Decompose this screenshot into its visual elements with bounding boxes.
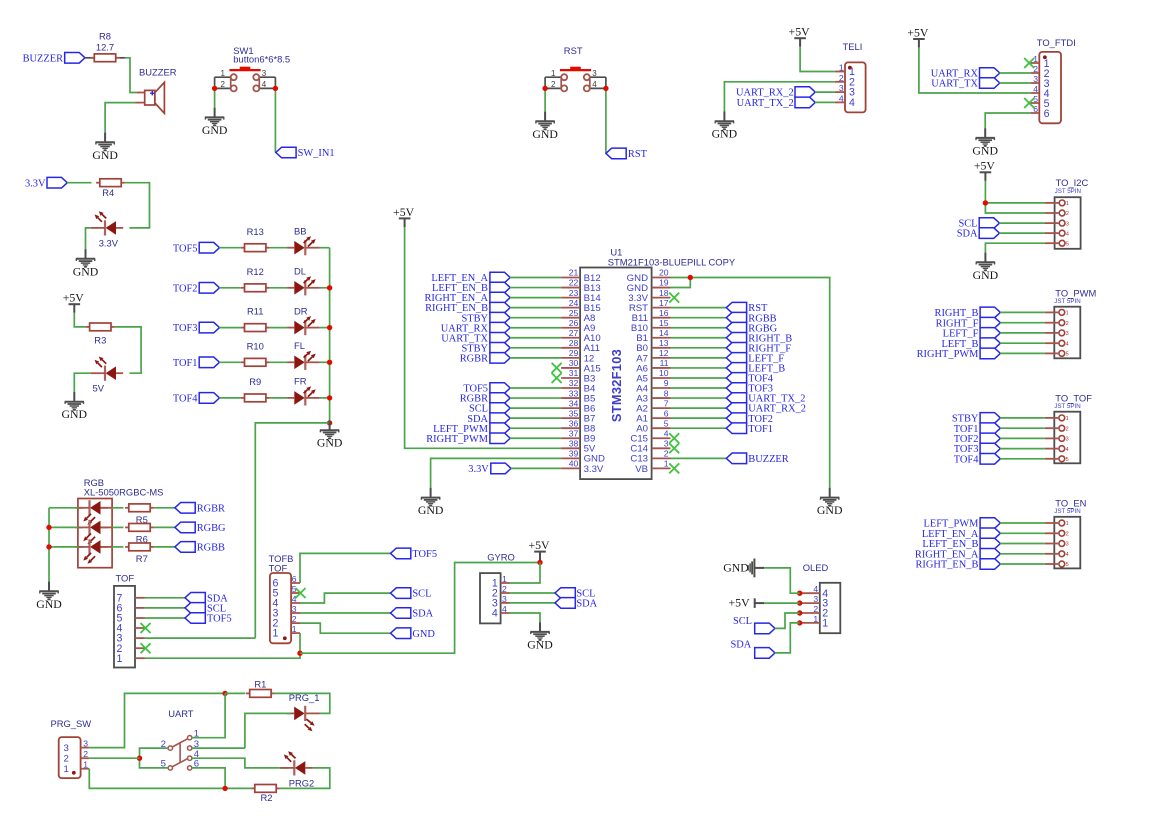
pin 12 (A7) right xyxy=(636,348,670,364)
pin 26 (A9) left xyxy=(561,318,595,334)
svg-text:4: 4 xyxy=(1066,341,1069,347)
svg-text:JST 5PIN: JST 5PIN xyxy=(1054,508,1080,515)
svg-text:GND: GND xyxy=(412,629,435,640)
junction TOFB/TOF +5V xyxy=(297,651,302,656)
junction bus y=362.3 xyxy=(327,360,332,365)
svg-text:TOF3: TOF3 xyxy=(173,323,198,334)
wire pin 12 to LEFT_F xyxy=(671,357,727,359)
LED FR xyxy=(287,386,320,405)
junction OLED y=603.1 xyxy=(797,600,802,605)
svg-text:38: 38 xyxy=(569,438,579,448)
svg-text:R7: R7 xyxy=(136,553,148,564)
net flag UART_TX_2 xyxy=(737,97,816,109)
wire +5V to pin 38 xyxy=(405,227,561,448)
wire R1 to PRG_1 anode xyxy=(275,693,330,713)
junction bus y=397.9 xyxy=(327,395,332,400)
wire TOF3 to TO_TOF xyxy=(1000,448,1045,450)
net flag TOF4 xyxy=(173,393,220,405)
net flag LEFT_PWM xyxy=(924,518,1001,530)
svg-text:VB: VB xyxy=(635,464,648,475)
svg-text:UART: UART xyxy=(168,708,194,719)
svg-text:TOF4: TOF4 xyxy=(173,394,198,405)
wire LEFT_EN_B to pin 22 xyxy=(510,287,561,289)
net flag STBY xyxy=(461,312,510,324)
wire pin 20 to GND (right) xyxy=(671,278,830,489)
svg-text:20: 20 xyxy=(659,268,669,278)
junction bus bottom xyxy=(327,420,332,425)
svg-text:5V: 5V xyxy=(93,383,105,394)
ground (RGB) xyxy=(36,582,62,611)
net flag UART_TX_2 xyxy=(726,393,805,405)
net flag RIGHT_B xyxy=(935,307,1001,319)
svg-text:+5V: +5V xyxy=(63,291,85,305)
LED 3.3V indicator xyxy=(91,211,124,235)
+5V supply (TO_I2C) xyxy=(974,159,996,181)
wire LEFT_PWM to pin 36 xyxy=(510,427,561,429)
svg-text:SDA: SDA xyxy=(731,639,752,650)
connector TELI xyxy=(835,41,866,112)
svg-text:3: 3 xyxy=(592,69,597,78)
svg-text:GND: GND xyxy=(418,503,444,517)
svg-text:GND: GND xyxy=(972,143,998,157)
junction GYRO +5V xyxy=(537,560,542,565)
svg-text:4: 4 xyxy=(502,604,507,614)
svg-text:4: 4 xyxy=(592,80,597,89)
svg-text:4: 4 xyxy=(813,584,818,594)
svg-text:RIGHT_PWM: RIGHT_PWM xyxy=(917,349,979,360)
pin 13 (B0) right xyxy=(636,338,670,354)
svg-text:1: 1 xyxy=(1066,521,1069,527)
net flag RIGHT_F xyxy=(936,317,1001,329)
net flag STBY xyxy=(461,343,510,355)
svg-text:2: 2 xyxy=(1066,532,1069,538)
wire +5V to pin4 xyxy=(919,48,1031,93)
svg-text:PRG_SW: PRG_SW xyxy=(51,718,92,729)
pin 2 (C13) right xyxy=(630,449,670,465)
svg-text:1: 1 xyxy=(83,760,88,770)
svg-text:5: 5 xyxy=(1066,352,1069,358)
wire R8 to buzzer + xyxy=(125,58,136,93)
svg-text:OLED: OLED xyxy=(803,562,829,573)
net flag TOF2 xyxy=(954,433,1001,445)
svg-text:GYRO: GYRO xyxy=(487,552,515,563)
svg-text:TOF1: TOF1 xyxy=(173,358,198,369)
ground (U1 left) xyxy=(418,488,444,517)
net flag TOF3 xyxy=(954,443,1001,455)
ground (TELI) xyxy=(712,112,738,141)
net flag LEFT_EN_A xyxy=(922,528,1001,540)
junction RGB row2 xyxy=(46,525,51,530)
wire 3.3V flag to pin 40 xyxy=(511,467,561,469)
net flag SCL xyxy=(469,403,510,415)
wire UART_RX_2 to pin3 xyxy=(815,91,835,93)
svg-text:2: 2 xyxy=(1033,64,1038,74)
wire UART pin1 to rail xyxy=(192,693,225,737)
resistor R7 xyxy=(125,543,154,564)
net flag STBY xyxy=(952,413,1001,425)
wire 3.3V flag to R4 xyxy=(67,182,92,184)
svg-text:RST: RST xyxy=(628,149,648,160)
svg-text:3: 3 xyxy=(839,83,844,93)
svg-text:19: 19 xyxy=(659,278,669,288)
wire TOF3 flag to R11 xyxy=(219,327,241,329)
wire RGB row 2 to bus xyxy=(53,526,78,528)
svg-text:30: 30 xyxy=(569,358,579,368)
wire TOF5 flag to R13 xyxy=(219,247,241,249)
svg-text:2: 2 xyxy=(1066,211,1069,217)
net flag GND xyxy=(391,628,436,640)
svg-text:16: 16 xyxy=(659,308,669,318)
svg-text:1: 1 xyxy=(64,764,69,775)
wire LEFT_EN_A to pin 21 xyxy=(510,277,561,279)
svg-text:35: 35 xyxy=(569,408,579,418)
wire TELI pin2 to GND xyxy=(724,82,834,112)
svg-text:SDA: SDA xyxy=(957,229,978,240)
wire SCL to pin3 xyxy=(999,222,1045,224)
svg-text:2: 2 xyxy=(839,73,844,83)
svg-text:GND: GND xyxy=(73,264,99,278)
IC U1 STM21F103-BLUEPILL COPY xyxy=(580,247,736,480)
connector TO_PWM (TO_PWM) xyxy=(1045,288,1097,359)
wire RIGHT_EN_A to TO_EN xyxy=(1000,553,1045,555)
svg-text:12: 12 xyxy=(659,348,669,358)
junction OLED y=622.9 xyxy=(797,620,802,625)
wire R12 to LED DL xyxy=(270,287,288,289)
pin 21 (B12) left xyxy=(561,268,601,284)
wire RIGHT_EN_B to pin 24 xyxy=(510,307,561,309)
svg-text:3: 3 xyxy=(1066,331,1069,337)
svg-text:5: 5 xyxy=(1066,562,1069,568)
wire RGB row 3 to R7 xyxy=(112,546,123,548)
net flag RIGHT_PWM xyxy=(426,433,510,445)
pin 7 (A2) right xyxy=(636,398,670,414)
junction R1 rail xyxy=(222,691,227,696)
wire TOF to TOF5 xyxy=(145,617,185,619)
wire RGB row 3 to bus xyxy=(53,546,78,548)
pin 27 (A10) left xyxy=(561,328,601,344)
net flag TOF5 xyxy=(463,383,510,395)
wire pin 39 to GND xyxy=(431,458,561,488)
junction UART common xyxy=(137,756,142,761)
svg-text:R2: R2 xyxy=(261,792,273,803)
svg-text:GND: GND xyxy=(712,127,738,141)
net flag TOF1 xyxy=(954,423,1001,435)
svg-text:2: 2 xyxy=(292,614,297,624)
wire PRG_SW pin3 to R1 rail xyxy=(89,693,225,747)
ground (U1 right) xyxy=(817,488,843,517)
no-connect pin 30 xyxy=(552,363,562,373)
wire RGB row 2 leads xyxy=(78,526,83,528)
wire RGB row 1 to R5 xyxy=(112,507,123,509)
net flag RIGHT_EN_B xyxy=(915,559,1000,571)
no-connect TOFB pin5 xyxy=(296,588,306,598)
svg-text:TOF2: TOF2 xyxy=(173,283,198,294)
pin 5 (A0) right xyxy=(636,418,670,434)
svg-text:RGBB: RGBB xyxy=(197,543,225,554)
wire LED FR to bus xyxy=(320,397,330,399)
svg-text:UART_TX: UART_TX xyxy=(931,79,978,90)
pin 10 (A5) right xyxy=(636,368,670,384)
wire R8 to bend xyxy=(119,57,125,59)
svg-text:SDA: SDA xyxy=(412,609,433,620)
ground (3.3V LED) xyxy=(73,249,99,278)
connector TO_EN (TO_EN) xyxy=(1045,498,1087,569)
svg-text:6: 6 xyxy=(1044,108,1050,120)
wire TOFB pin3 to SDA xyxy=(300,612,391,614)
ground (SW1) xyxy=(202,108,228,137)
svg-text:32: 32 xyxy=(569,378,579,388)
wire TOFB pin4 to SCL xyxy=(300,593,391,603)
svg-text:GND: GND xyxy=(817,503,843,517)
net flag SDA xyxy=(391,608,434,620)
net flag TOF5 xyxy=(185,613,232,625)
wire UART_TX to pin3 xyxy=(1000,82,1031,84)
wire bus to TOF pin3 xyxy=(255,423,329,638)
net flag RIGHT_F xyxy=(726,343,791,355)
svg-text:SCL: SCL xyxy=(733,616,752,627)
svg-text:12.7: 12.7 xyxy=(96,41,114,52)
pin 3 (C14) right xyxy=(630,438,670,454)
wire +5V run to GYRO xyxy=(300,563,540,654)
svg-text:TOF: TOF xyxy=(116,573,135,584)
net flag LEFT_EN_B xyxy=(432,282,510,294)
net flag RIGHT_B xyxy=(726,332,792,344)
RGB LED module XL-5050RGBC-MS xyxy=(78,477,164,568)
net flag TOF5 xyxy=(391,548,438,560)
+5V supply (TELI) xyxy=(789,25,811,47)
wire RGB row 2 to R6 xyxy=(112,526,123,528)
net flag SDA xyxy=(957,228,1000,240)
+5V supply (TO_FTDI) xyxy=(907,25,929,47)
net flag RGBR xyxy=(460,393,510,405)
svg-text:+5V: +5V xyxy=(729,596,751,610)
svg-text:4: 4 xyxy=(492,608,498,620)
switch UART xyxy=(161,708,200,770)
svg-text:button6*6*8.5: button6*6*8.5 xyxy=(233,53,290,64)
wire GYRO pin1 to +5V xyxy=(510,563,541,584)
wire LEFT_F to TO_PWM xyxy=(1000,332,1045,334)
svg-text:PRG2: PRG2 xyxy=(289,777,315,788)
svg-text:TOF5: TOF5 xyxy=(173,243,198,254)
svg-text:31: 31 xyxy=(569,368,579,378)
svg-text:1: 1 xyxy=(1066,201,1069,207)
wire +5V to TELI pin1 xyxy=(800,47,835,72)
svg-text:DL: DL xyxy=(294,266,306,277)
svg-text:9: 9 xyxy=(664,378,669,388)
LED BB xyxy=(287,236,320,255)
ground (LED bus) xyxy=(317,421,343,450)
svg-text:4: 4 xyxy=(292,594,297,604)
svg-text:4: 4 xyxy=(1033,84,1038,94)
no-connect TOF pin4 xyxy=(141,623,151,633)
wire SCL to OLED pin2 xyxy=(775,613,800,628)
wire LED to GND xyxy=(74,373,91,392)
wire STBY to pin 28 xyxy=(510,347,561,349)
no-connect pin 18 xyxy=(669,293,679,303)
net flag UART_RX xyxy=(931,68,1000,80)
wire UART_TX_2 to pin4 xyxy=(815,101,835,103)
wire UART pin3 xyxy=(192,747,245,749)
svg-text:JST 5PIN: JST 5PIN xyxy=(1054,298,1080,305)
svg-text:3: 3 xyxy=(262,69,267,78)
net flag LEFT_PWM xyxy=(433,423,510,435)
wire SCL to pin 34 xyxy=(510,407,561,409)
svg-text:3: 3 xyxy=(64,743,69,754)
svg-text:21: 21 xyxy=(569,268,579,278)
wire TOF to SCL xyxy=(145,607,185,609)
net flag LEFT_B xyxy=(726,363,785,375)
svg-text:BUZZER: BUZZER xyxy=(748,454,788,465)
net flag SCL xyxy=(958,218,999,230)
resistor R9 xyxy=(241,376,270,402)
wire pin 8 to UART_TX_2 xyxy=(671,397,727,399)
wire +5V to OLED pin3 xyxy=(764,602,800,604)
wire LEFT_B to TO_PWM xyxy=(1000,342,1045,344)
wire LEFT_PWM to TO_EN xyxy=(1000,522,1045,524)
svg-text:GND: GND xyxy=(36,597,62,611)
wire PRG_1 to UART pin3 xyxy=(245,713,291,748)
net flag UART_RX xyxy=(441,322,510,334)
net flag SW_IN1 xyxy=(276,147,335,159)
svg-text:1: 1 xyxy=(273,628,279,640)
wire GYRO pin4 to GND xyxy=(510,613,541,622)
wire +5V to TO_I2C pin1 xyxy=(985,181,1045,203)
wire R7 to RGBB xyxy=(154,546,175,548)
wire RGB bus row2 xyxy=(49,526,53,528)
svg-text:24: 24 xyxy=(569,298,579,308)
wire TOF pin1 to +5V net xyxy=(145,653,300,658)
wire RIGHT_F to TO_PWM xyxy=(1000,322,1045,324)
net flag UART_TX xyxy=(441,332,510,344)
svg-text:2: 2 xyxy=(813,604,818,614)
wire pin 19 tie xyxy=(671,278,691,288)
wire PRG_SW pin2 to UART common xyxy=(89,757,139,759)
svg-text:3: 3 xyxy=(664,438,669,448)
svg-text:1: 1 xyxy=(813,614,818,624)
LED PRG_1 xyxy=(287,706,320,732)
svg-text:23: 23 xyxy=(569,288,579,298)
no-connect pin 1 xyxy=(669,463,679,473)
pin 38 (5V) left xyxy=(561,438,596,454)
wire TOF4 to TO_TOF xyxy=(1000,458,1045,460)
svg-text:RGBR: RGBR xyxy=(460,353,488,364)
pin 24 (B15) left xyxy=(561,298,601,314)
wire pin 11 to LEFT_B xyxy=(671,367,727,369)
svg-text:TO_PWM: TO_PWM xyxy=(1055,288,1096,299)
net flag LEFT_EN_B xyxy=(922,538,1000,550)
svg-text:1: 1 xyxy=(221,69,226,78)
svg-text:2: 2 xyxy=(1066,321,1069,327)
wire pin 10 to TOF4 xyxy=(671,377,727,379)
svg-text:3.3V: 3.3V xyxy=(25,178,46,189)
net flag TOF1 xyxy=(726,423,773,435)
svg-text:1: 1 xyxy=(117,653,123,665)
pin 16 (B11) right xyxy=(632,308,671,324)
svg-text:R12: R12 xyxy=(247,266,264,277)
pin 32 (B4) left xyxy=(561,378,596,394)
junction TO_I2C +5V xyxy=(983,200,988,205)
pin 29 (12) left xyxy=(561,348,594,364)
wire R9 to LED FR xyxy=(270,397,288,399)
wire R10 to LED FL xyxy=(270,361,288,363)
svg-text:RST: RST xyxy=(564,45,583,56)
wire TOF to SDA xyxy=(145,597,185,599)
resistor R6 xyxy=(125,524,154,545)
net flag SCL xyxy=(391,588,432,600)
wire TO_I2C pin5 to GND xyxy=(985,243,1045,253)
svg-text:39: 39 xyxy=(569,449,579,459)
connector TOF (7 pin) xyxy=(114,573,145,668)
svg-text:4: 4 xyxy=(1066,447,1069,453)
svg-text:TOF1: TOF1 xyxy=(748,424,773,435)
wire pin 16 to RGBB xyxy=(671,317,727,319)
ground (5V LED) xyxy=(62,392,88,421)
wire TOF2 to TO_TOF xyxy=(1000,437,1045,439)
net flag SCL box (OLED) xyxy=(755,623,775,634)
net flag TOF2 xyxy=(726,413,773,425)
LED DL xyxy=(287,276,320,295)
svg-text:5: 5 xyxy=(1066,457,1069,463)
net flag RGBR xyxy=(175,503,225,515)
pin 6 (A1) right xyxy=(636,408,670,424)
junction bus y=287.8 xyxy=(327,285,332,290)
svg-text:3: 3 xyxy=(1066,437,1069,443)
wire LED DL to bus xyxy=(320,287,330,289)
net flag TOF3 xyxy=(173,322,220,334)
pin 37 (B9) left xyxy=(561,428,595,444)
svg-text:R4: R4 xyxy=(102,187,114,198)
wire TOF2 flag to R12 xyxy=(219,287,241,289)
wire flag to R8 xyxy=(85,57,95,59)
resistor R8 xyxy=(91,31,120,62)
junction RST pin3/4 xyxy=(603,86,608,91)
wire buzzer - to GND xyxy=(105,103,135,133)
net flag UART_TX xyxy=(931,78,1000,90)
connector GYRO xyxy=(480,552,515,624)
ground (OLED, rotated) xyxy=(723,559,764,578)
+5V supply (R3) xyxy=(63,291,85,313)
pin 9 (A4) right xyxy=(636,378,670,394)
svg-text:5: 5 xyxy=(1066,241,1069,247)
wire pin 5 to TOF1 xyxy=(671,427,727,429)
net flag TOF5 xyxy=(173,242,220,254)
net flag TOF1 xyxy=(173,357,220,369)
net flag LEFT_F xyxy=(726,353,784,365)
svg-text:10: 10 xyxy=(659,368,669,378)
svg-text:40: 40 xyxy=(569,459,579,469)
svg-text:TOF5: TOF5 xyxy=(412,549,437,560)
net flag RGBG xyxy=(175,522,226,534)
LED FL xyxy=(287,351,320,370)
net flag RST xyxy=(726,302,768,314)
svg-text:3.3V: 3.3V xyxy=(99,237,119,248)
wire SW1 pin2 to GND xyxy=(214,88,216,107)
+5V supply (GYRO) xyxy=(528,538,550,560)
svg-text:7: 7 xyxy=(664,398,669,408)
wire RGBR to pin 29 xyxy=(510,357,561,359)
junction RST pin1/2 xyxy=(542,86,547,91)
LED RGB element 2 xyxy=(75,520,108,545)
no-connect TO_FTDI pin5 xyxy=(1024,98,1034,108)
svg-text:29: 29 xyxy=(569,348,579,358)
svg-text:36: 36 xyxy=(569,418,579,428)
svg-text:3.3V: 3.3V xyxy=(584,464,604,475)
pin 28 (A11) left xyxy=(561,338,600,354)
svg-text:4: 4 xyxy=(1066,552,1069,558)
ground (GYRO) xyxy=(527,622,553,651)
svg-text:FR: FR xyxy=(294,376,307,387)
wire TOF1 flag to R10 xyxy=(219,361,241,363)
